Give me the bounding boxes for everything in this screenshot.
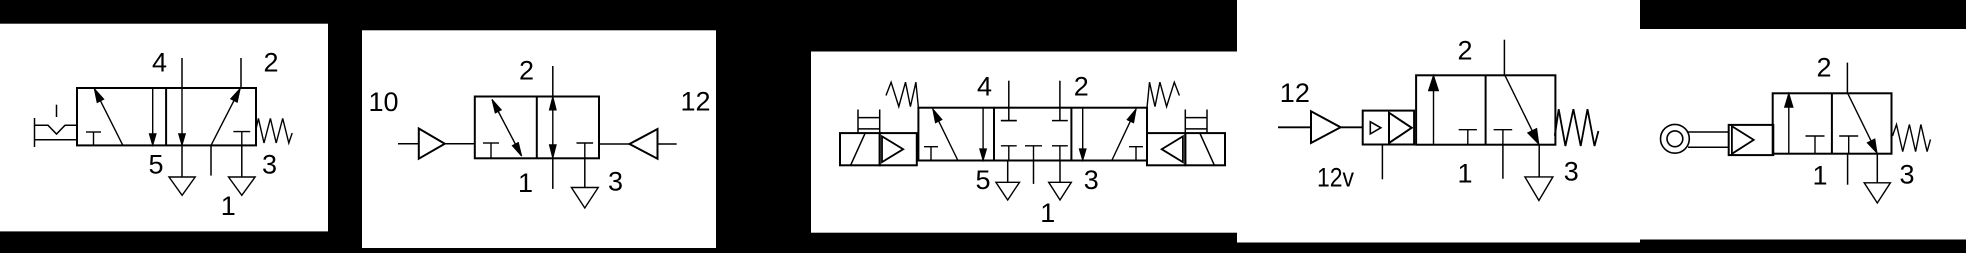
svg-text:1: 1	[221, 191, 236, 221]
svg-text:2: 2	[519, 55, 534, 85]
svg-text:3: 3	[1564, 156, 1579, 186]
svg-text:10: 10	[368, 87, 398, 117]
svg-text:3: 3	[1900, 160, 1915, 190]
svg-text:1: 1	[1812, 161, 1827, 191]
svg-text:4: 4	[977, 71, 992, 101]
svg-text:3: 3	[608, 166, 623, 196]
svg-text:2: 2	[264, 48, 279, 78]
svg-text:2: 2	[1457, 35, 1472, 65]
svg-text:4: 4	[152, 48, 167, 78]
svg-text:12: 12	[1280, 78, 1310, 108]
svg-text:12v: 12v	[1317, 162, 1354, 192]
svg-text:2: 2	[1816, 53, 1831, 83]
svg-text:3: 3	[262, 149, 277, 179]
svg-text:1: 1	[518, 168, 533, 198]
svg-text:1: 1	[1040, 198, 1055, 228]
svg-text:2: 2	[1074, 71, 1089, 101]
svg-text:5: 5	[148, 149, 163, 179]
svg-text:3: 3	[1084, 165, 1099, 195]
svg-text:5: 5	[975, 165, 990, 195]
svg-text:12: 12	[681, 86, 711, 116]
svg-text:1: 1	[1457, 158, 1472, 188]
